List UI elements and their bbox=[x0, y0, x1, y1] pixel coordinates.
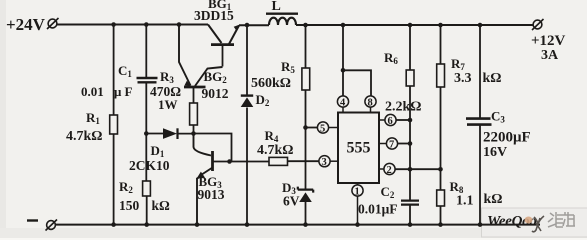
node junction pin7 bbox=[408, 141, 413, 146]
node junction R8/bottom rail bbox=[438, 222, 443, 227]
svg-text:kΩ: kΩ bbox=[483, 71, 502, 86]
node junction C3/top rail bbox=[478, 23, 483, 28]
wire R5 node to zener D3 bbox=[305, 128, 307, 190]
resistor R8 bbox=[437, 190, 445, 225]
node junction BG2/top rail bbox=[177, 22, 182, 27]
svg-text:16V: 16V bbox=[483, 145, 507, 160]
svg-text:3A: 3A bbox=[541, 48, 559, 63]
svg-text:4.7kΩ: 4.7kΩ bbox=[66, 129, 103, 144]
svg-text:+24V: +24V bbox=[6, 15, 46, 34]
node junction R5/top rail bbox=[303, 23, 308, 28]
svg-text:1: 1 bbox=[355, 187, 360, 198]
resistor R2 bbox=[143, 134, 151, 225]
svg-text:5: 5 bbox=[320, 124, 325, 135]
node junction R6/top rail bbox=[408, 23, 413, 28]
pin 4 bbox=[337, 96, 348, 113]
resistor R7 bbox=[437, 25, 445, 190]
pin 6 bbox=[379, 114, 410, 127]
svg-text:1W: 1W bbox=[158, 97, 178, 112]
node junction pin1/bottom rail bbox=[355, 222, 360, 227]
watermark logo mark bbox=[525, 216, 545, 232]
svg-text:0.01μF: 0.01μF bbox=[358, 202, 398, 217]
pin 2 bbox=[379, 163, 441, 176]
node junction C1/top rail bbox=[144, 22, 149, 27]
node junction D2/bottom rail bbox=[245, 222, 250, 227]
capacitor C3 electrolytic bbox=[466, 25, 492, 225]
resistor R4 bbox=[230, 157, 320, 165]
svg-text:7: 7 bbox=[389, 140, 394, 151]
svg-text:6: 6 bbox=[388, 116, 393, 127]
transistor BG2 (9012) bbox=[179, 25, 223, 88]
svg-text:8: 8 bbox=[368, 98, 373, 109]
resistor R3 bbox=[190, 87, 198, 134]
terminal minus bbox=[46, 220, 58, 231]
pin 1 bbox=[352, 183, 363, 225]
capacitor C2 bbox=[401, 201, 419, 225]
node junction R1/top rail bbox=[111, 22, 116, 27]
node junction pin6 bbox=[408, 118, 413, 123]
watermark box bbox=[482, 208, 587, 237]
node junction 555 supply/top rail bbox=[341, 23, 346, 28]
svg-text:9012: 9012 bbox=[202, 86, 229, 101]
zener diode D3 (6V) bbox=[298, 187, 313, 225]
node junction R2/bottom rail bbox=[144, 222, 149, 227]
wire top rail right (BG1 emitter to +12V) bbox=[239, 24, 533, 26]
inductor L bbox=[266, 14, 298, 25]
pin 3 bbox=[319, 156, 338, 169]
transistor BG1 (3DD15) bbox=[208, 25, 240, 67]
node junction BG3 base/R4 bbox=[227, 159, 232, 164]
resistor R1 bbox=[110, 25, 118, 225]
node junction R3/D1/BG3 collector bbox=[191, 131, 196, 136]
node junction BG3 emitter/bottom rail bbox=[195, 222, 200, 227]
pin 8 bbox=[365, 96, 376, 113]
svg-text:0.01: 0.01 bbox=[81, 84, 104, 99]
wire D1 node to BG3 base node bbox=[194, 134, 232, 162]
svg-text:4: 4 bbox=[340, 98, 346, 109]
svg-text:2200μF: 2200μF bbox=[483, 130, 531, 146]
node junction R1/bottom rail bbox=[111, 222, 116, 227]
svg-text:2CK10: 2CK10 bbox=[129, 158, 170, 173]
node junction D3/bottom rail bbox=[303, 222, 308, 227]
wire pin5 stub bbox=[306, 127, 318, 129]
svg-text:150: 150 bbox=[119, 198, 140, 213]
terminal +24V bbox=[47, 18, 59, 29]
terminal +12V bbox=[532, 19, 544, 30]
svg-text:1.1: 1.1 bbox=[456, 194, 474, 209]
svg-text:L: L bbox=[272, 0, 281, 14]
node junction D2/top rail bbox=[245, 23, 250, 28]
wire R6 node down through pins to C2 bbox=[409, 120, 411, 200]
node junction C3/bottom rail bbox=[478, 222, 483, 227]
node junction pin4/pin8 bridge bbox=[341, 68, 346, 73]
wire 555 pin4/pin8 supply bbox=[343, 25, 371, 96]
svg-text:kΩ: kΩ bbox=[484, 192, 503, 207]
svg-text:6V: 6V bbox=[283, 194, 300, 209]
op-amp/timer U1 555 box bbox=[338, 113, 379, 184]
svg-text:555: 555 bbox=[347, 140, 371, 157]
svg-text:2: 2 bbox=[387, 165, 392, 176]
svg-text:μ: μ bbox=[114, 84, 122, 99]
svg-text:560kΩ: 560kΩ bbox=[251, 76, 291, 91]
svg-text:9013: 9013 bbox=[198, 187, 225, 202]
svg-text:2.2kΩ: 2.2kΩ bbox=[385, 100, 422, 115]
pin 5 bbox=[317, 122, 338, 135]
label minus sign bbox=[27, 219, 38, 221]
svg-text:3: 3 bbox=[322, 157, 327, 168]
pin 7 bbox=[379, 138, 410, 151]
wire top rail left (+24V to BG1 collector) bbox=[57, 24, 208, 26]
svg-text:3DD15: 3DD15 bbox=[194, 8, 234, 23]
diode D1 (2CK10) bbox=[146, 128, 193, 139]
svg-text:3.3: 3.3 bbox=[454, 71, 472, 86]
resistor R6 bbox=[406, 25, 414, 120]
capacitor C1 bbox=[137, 25, 158, 134]
node junction C1-R2/D1 bbox=[144, 131, 149, 136]
node junction R7/top rail bbox=[438, 23, 443, 28]
node junction pin2/R7/R8 bbox=[438, 167, 443, 172]
node junction pin5 link bbox=[303, 125, 308, 130]
svg-text:F: F bbox=[125, 84, 133, 99]
diode D2 freewheel bbox=[241, 25, 254, 225]
svg-text:4.7kΩ: 4.7kΩ bbox=[257, 143, 294, 158]
node junction pin2 bbox=[408, 167, 413, 172]
resistor R5 bbox=[302, 25, 310, 128]
node junction C2/bottom rail bbox=[408, 222, 413, 227]
svg-text:kΩ: kΩ bbox=[152, 198, 171, 213]
wire bottom rail bbox=[56, 224, 541, 226]
transistor BG3 (9013) bbox=[194, 134, 230, 225]
svg-text:+12V: +12V bbox=[531, 33, 566, 49]
